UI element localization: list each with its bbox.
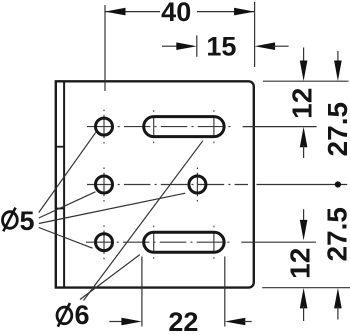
dim 22 right arrow tail <box>244 321 252 323</box>
Ø5 leader to circle row1 <box>39 132 96 212</box>
dim 12 bottom: lower arrow tail <box>303 306 305 321</box>
slot2 left arc center mark <box>153 226 155 259</box>
dim 40/15 extension line right <box>254 2 256 67</box>
right ref line row1 <box>243 126 317 128</box>
dim 27.5 top: upper arrowhead (down) <box>334 61 342 82</box>
dim 12 bottom: upper arrow tail <box>303 209 305 222</box>
svg-text:27.5: 27.5 <box>322 102 350 157</box>
dim 15 arrowhead left <box>176 42 197 50</box>
Ø6 leader to slot2 <box>80 255 140 300</box>
dim 27.5 bottom: lower arrow tail <box>337 306 339 320</box>
hole circle row2 left Ø5 <box>96 176 113 193</box>
svg-text:12: 12 <box>285 248 316 279</box>
dim 22 extension line right <box>224 257 226 327</box>
dim 40 line left segment <box>105 11 160 13</box>
vertical centerline middle circle <box>196 168 198 202</box>
dim 15 right arrow tail <box>273 45 289 47</box>
dim 40 arrowhead right <box>234 8 255 16</box>
bend tick upper <box>56 146 64 148</box>
svg-text:40: 40 <box>161 0 191 27</box>
centerline row 1 <box>87 126 232 128</box>
dim 27.5 bottom: lower arrowhead (up) <box>334 288 342 309</box>
dim 12 top: upper arrowhead (down) <box>300 61 308 82</box>
dim 27.5 shared center dot <box>335 181 341 187</box>
dim 12 top: upper arrow tail <box>303 48 305 64</box>
slot1 left arc center mark <box>153 110 155 143</box>
label Ø6 symbol slash <box>58 303 70 327</box>
dim 40 line right segment <box>197 11 255 13</box>
dim 27.5 top: upper arrow tail <box>337 51 339 63</box>
dim 12 top: lower arrowhead (up) <box>300 127 308 148</box>
centerline row 2 <box>87 184 248 186</box>
right ref line row3 <box>241 241 316 243</box>
label Ø5 symbol circle <box>2 212 17 229</box>
dim 22 arrowhead right <box>225 318 246 326</box>
right ref line top edge <box>263 80 349 82</box>
dim 12 bottom: lower arrowhead (up) <box>300 288 308 309</box>
svg-text:12: 12 <box>287 88 318 119</box>
slot2 right arc center mark <box>213 226 215 259</box>
dim 22 left arrow tail <box>109 321 123 323</box>
slot 2 (bottom, Ø6 x 22) <box>144 232 224 252</box>
Ø6 leader to slot1 <box>84 141 203 301</box>
right ref line bottom edge <box>262 287 350 289</box>
dim 22 arrowhead left <box>121 318 141 326</box>
dim 22 extension line left <box>141 257 143 327</box>
dim 15 extension line <box>196 35 198 56</box>
dim 12 bottom: upper arrowhead (down) <box>300 220 308 241</box>
svg-text:15: 15 <box>206 32 236 62</box>
dim 12 top: lower arrow tail <box>303 145 305 158</box>
svg-text:5: 5 <box>19 206 34 236</box>
Ø5 leader to circle row2 <box>39 192 96 218</box>
Ø5 leader to circle row3 <box>39 228 93 249</box>
plate outline <box>56 81 254 287</box>
vertical centerline circle row2 <box>103 168 105 202</box>
svg-text:22: 22 <box>168 307 198 335</box>
bend line (flange edge) <box>63 81 65 287</box>
dim 40 extension line left <box>104 5 106 91</box>
svg-text:27.5: 27.5 <box>322 207 350 261</box>
slot 1 (top, Ø6 x 22) <box>144 117 224 137</box>
vertical centerline circle row3 <box>103 225 105 259</box>
hole circle row3 left Ø5 <box>96 234 113 251</box>
label Ø6 symbol circle <box>57 307 72 324</box>
slot1 right arc center mark <box>213 110 215 143</box>
hole circle row1 left Ø5 <box>96 118 113 135</box>
right ref line row2 (center) <box>257 184 348 186</box>
dim 15 arrowhead right <box>255 42 276 50</box>
Ø5 leader to middle circle <box>39 193 185 223</box>
dim 40 arrowhead left <box>105 8 126 16</box>
dim 15 left arrow tail <box>162 45 178 47</box>
centerline row 3 <box>86 241 232 243</box>
bend tick lower <box>56 208 64 210</box>
svg-text:6: 6 <box>74 300 89 330</box>
vertical centerline circle row1 <box>103 110 105 144</box>
hole circle middle Ø5 <box>189 176 206 193</box>
label Ø5 symbol slash <box>3 208 15 232</box>
